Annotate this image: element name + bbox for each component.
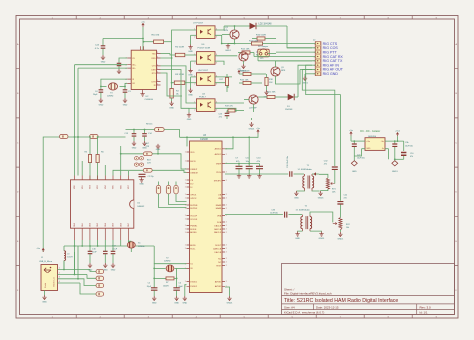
svg-text:2: 2 — [226, 281, 227, 283]
wire U5 output right — [215, 76, 232, 78]
svg-text:22R: 22R — [147, 163, 151, 165]
ferrite bead L1 — [60, 134, 69, 138]
U1 bottom pin wires — [74, 233, 76, 241]
svg-text:1: 1 — [185, 232, 186, 234]
wire +5V rail to C24 — [103, 38, 143, 40]
wire +5V to U2 — [142, 27, 144, 50]
ground under U6 input — [191, 60, 197, 62]
svg-text:GND: GND — [294, 197, 299, 199]
J1 D+ wire — [58, 278, 79, 280]
svg-text:2: 2 — [226, 252, 227, 254]
wire 5v digital rail — [126, 129, 155, 131]
ground under C14 — [142, 141, 146, 146]
svg-text:12MHz: 12MHz — [107, 95, 113, 97]
svg-text:MICN: MICN — [190, 161, 196, 163]
svg-text:ROLL: ROLL — [190, 248, 196, 250]
wire AVDD hook — [225, 137, 233, 149]
svg-text:AVSS2: AVSS2 — [215, 285, 222, 288]
svg-text:GND: GND — [352, 171, 357, 173]
svg-text:VRA: VRA — [217, 214, 222, 217]
svg-text:1: 1 — [185, 208, 186, 210]
svg-text:AVDD2: AVDD2 — [215, 153, 222, 156]
trimmer RV1 10K wire — [312, 173, 319, 175]
svg-text:Id: 1/1: Id: 1/1 — [420, 311, 428, 315]
ferrite bead L2 — [77, 136, 79, 138]
svg-text:GND: GND — [123, 104, 128, 106]
svg-text:DACLB: DACLB — [215, 251, 222, 254]
ground GND1 above U3 — [249, 122, 253, 127]
ground PS1 in — [362, 148, 366, 150]
crystal Y3 12MHz — [101, 85, 107, 87]
transistor Q4 PNP — [249, 95, 258, 104]
svg-text:GND1: GND1 — [227, 302, 234, 304]
svg-text:DSR: DSR — [151, 69, 156, 71]
wire under U1 junctions — [64, 245, 154, 247]
svg-text:GND: GND — [139, 183, 144, 185]
svg-text:2: 2 — [226, 225, 227, 227]
wire J2 pin7 long riser — [290, 70, 300, 84]
svg-text:GND: GND — [188, 75, 193, 77]
svg-text:SI8642: SI8642 — [137, 206, 145, 208]
trimmer RV2 10k — [339, 218, 342, 231]
J2 feed wires — [276, 43, 316, 45]
ferrite bead FB1 vertical — [158, 182, 160, 186]
ground PS1 out — [385, 148, 389, 150]
svg-text:1:1 600R Audio: 1:1 600R Audio — [298, 168, 313, 171]
svg-text:1: 1 — [185, 180, 186, 182]
svg-text:2: 2 — [226, 194, 227, 196]
resistor R18 13K vertical — [265, 78, 268, 86]
wire +5v to PS1 — [350, 136, 352, 142]
svg-text:GND1: GND1 — [249, 128, 256, 130]
wire U2 UD+ down — [75, 64, 128, 66]
svg-text:2: 2 — [226, 208, 227, 210]
wire Q3 emitter down — [276, 76, 291, 84]
wire U6 output right — [215, 55, 237, 57]
resistor R17 vertical — [225, 78, 228, 86]
wire U2 TXD to R2 — [161, 53, 171, 55]
svg-text:2: 2 — [157, 52, 158, 54]
ground GND1 under Q2 — [243, 61, 245, 64]
U2 pins right — [157, 54, 161, 86]
svg-text:+5v1: +5v1 — [395, 131, 401, 133]
svg-text:10k: 10k — [346, 227, 349, 229]
transistor Q1 NPN — [230, 30, 239, 39]
svg-text:1: 1 — [185, 281, 186, 283]
svg-text:VBUS D+ D-: VBUS D+ D- — [54, 276, 56, 287]
svg-text:2: 2 — [194, 83, 195, 85]
svg-text:ISOUT: ISOUT — [215, 245, 222, 247]
svg-text:DVDD2: DVDD2 — [190, 286, 198, 288]
title block outline — [282, 264, 455, 315]
svg-text:R7: R7 — [166, 282, 168, 284]
svg-text:2: 2 — [226, 205, 227, 207]
svg-text:10uF/16v: 10uF/16v — [357, 157, 365, 159]
transistor Q2 NPN — [239, 52, 248, 61]
svg-text:AVDD: AVDD — [190, 244, 196, 247]
svg-text:DARCLB: DARCLB — [213, 247, 222, 250]
svg-text:12MHz: 12MHz — [138, 246, 145, 248]
svg-text:2: 2 — [226, 232, 227, 234]
svg-text:SPDIFO: SPDIFO — [214, 180, 222, 182]
svg-text:3: 3 — [216, 62, 217, 64]
wire into U7 pin1 — [172, 30, 197, 42]
svg-text:GND: GND — [182, 302, 187, 304]
D- vertical continue — [74, 252, 76, 275]
svg-text:3: 3 — [216, 37, 217, 39]
wire Q3 collector to J2 — [276, 61, 313, 67]
svg-text:1: 1 — [194, 101, 195, 103]
svg-text:Date: 2023-12-15: Date: 2023-12-15 — [316, 305, 339, 309]
svg-text:C6: C6 — [179, 283, 181, 285]
svg-text:10uF/16v: 10uF/16v — [405, 145, 413, 147]
ground GND1 at J2 — [304, 74, 306, 76]
wire D1 to J2 riser — [298, 65, 312, 97]
svg-text:DC - DC - Isolator: DC - DC - Isolator — [360, 130, 380, 133]
trimmer RV1 10K — [326, 178, 329, 189]
svg-text:3: 3 — [216, 83, 217, 85]
svg-text:GND: GND — [111, 269, 116, 271]
diode LD2 1N4148 — [240, 25, 250, 27]
svg-text:USBDP: USBDP — [190, 169, 198, 171]
wire U3 AVSS down — [225, 287, 230, 296]
svg-text:2: 2 — [226, 245, 227, 247]
svg-text:SAICLR: SAICLR — [214, 231, 222, 234]
svg-text:2: 2 — [226, 265, 227, 267]
svg-text:10mH: 10mH — [67, 257, 73, 259]
svg-text:Title: S21RC Isolated HAM Radi: Title: S21RC Isolated HAM Radio Digital … — [284, 298, 398, 304]
svg-text:LD2 1N4148: LD2 1N4148 — [259, 24, 273, 26]
svg-text:D2 Jumper: D2 Jumper — [258, 45, 268, 48]
svg-text:USBDM: USBDM — [190, 172, 198, 174]
svg-text:R12 13K: R12 13K — [241, 49, 250, 51]
capacitor C20 in — [353, 141, 355, 143]
svg-text:VREF: VREF — [216, 163, 222, 165]
svg-text:2: 2 — [157, 71, 158, 73]
ground under C16 — [88, 263, 92, 268]
svg-text:ADSEL: ADSEL — [190, 231, 197, 234]
svg-text:2: 2 — [226, 180, 227, 182]
ground GND1 mid — [264, 90, 268, 95]
svg-text:HBAS: HBAS — [216, 207, 222, 210]
svg-text:PWSEL: PWSEL — [190, 225, 198, 227]
T2 right coil top lead — [310, 212, 333, 222]
resistor R4 1K vertical — [171, 83, 173, 89]
svg-text:MUTEF: MUTEF — [190, 208, 198, 210]
svg-text:2: 2 — [226, 198, 227, 200]
resonator Y1 12MHz — [127, 242, 135, 248]
svg-text:NBAS: NBAS — [216, 204, 222, 207]
svg-text:GND: GND — [174, 302, 179, 304]
svg-text:1: 1 — [185, 152, 186, 154]
svg-text:NPN: NPN — [224, 30, 229, 32]
svg-text:RTS: RTS — [152, 73, 157, 75]
svg-text:+Vin: +Vin — [366, 141, 370, 143]
svg-text:2: 2 — [194, 110, 195, 112]
svg-text:SAICLB: SAICLB — [214, 228, 222, 231]
svg-text:1: 1 — [185, 183, 186, 185]
svg-text:47n: 47n — [324, 164, 327, 166]
svg-text:1000R: 1000R — [163, 285, 169, 287]
wire U2 V3 stub — [119, 58, 127, 63]
IC U2 CH340G body — [131, 50, 156, 89]
svg-text:GND: GND — [152, 302, 157, 304]
J1 ID wire — [58, 282, 81, 284]
svg-text:USB_B_Micro: USB_B_Micro — [39, 260, 53, 263]
svg-text:R3 510R: R3 510R — [175, 74, 184, 76]
svg-text:GND: GND — [99, 104, 104, 106]
svg-text:1: 1 — [185, 225, 186, 227]
capacitor C19 out2 — [403, 141, 405, 151]
svg-text:U5 PC817: U5 PC817 — [198, 70, 209, 72]
ferrite bead FB2 vertical — [168, 182, 170, 186]
ground drop mid — [157, 149, 159, 154]
svg-text:TEST: TEST — [216, 265, 222, 267]
svg-text:LIM: LIM — [218, 198, 222, 200]
svg-text:1: 1 — [194, 54, 195, 56]
svg-text:Size: A4: Size: A4 — [284, 305, 295, 309]
svg-text:47k: 47k — [410, 156, 413, 158]
wire Q4 base — [244, 99, 249, 101]
wire U2 XI to crystal — [101, 79, 127, 86]
RV1 bottom to ground — [321, 189, 328, 191]
power +5v1 out — [396, 133, 398, 137]
svg-text:2: 2 — [157, 56, 158, 58]
transformer T2 600R audio — [301, 217, 303, 229]
wire +5v rail U3 — [180, 134, 259, 138]
wire U4 output right — [215, 102, 244, 104]
title block row lines — [282, 296, 455, 315]
wire U3 DVSS down — [185, 285, 187, 296]
capacitor C2 22p — [139, 174, 146, 176]
svg-text:2: 2 — [157, 83, 158, 85]
ground under C17 C20 — [103, 263, 107, 268]
svg-text:NPN: NPN — [281, 70, 286, 72]
svg-text:GND: GND — [156, 149, 161, 151]
ESD protector DZ3 — [96, 283, 104, 287]
wire U2 UD- down — [78, 67, 127, 69]
svg-text:1N4148: 1N4148 — [285, 109, 293, 111]
svg-text:10uF: 10uF — [92, 252, 97, 254]
svg-text:10uF/16v: 10uF/16v — [270, 213, 278, 215]
svg-text:U7 PC817: U7 PC817 — [193, 22, 204, 24]
sheet border frame inner — [20, 19, 455, 315]
ground GND1 at Q1 — [228, 43, 235, 45]
svg-text:2: 2 — [226, 262, 227, 264]
svg-text:1: 1 — [185, 215, 186, 217]
power +5v at R13 — [238, 70, 240, 74]
capacitor C3 20pF — [124, 86, 126, 89]
capacitor C21 out — [394, 141, 396, 143]
svg-text:GND: GND — [42, 301, 47, 303]
svg-text:0v: 0v — [382, 148, 384, 150]
svg-text:2: 2 — [226, 172, 227, 174]
svg-text:PC817: PC817 — [199, 97, 206, 99]
svg-text:RIG GND: RIG GND — [323, 72, 339, 76]
svg-text:20pF: 20pF — [93, 94, 98, 96]
ground at U1 right — [139, 178, 143, 183]
transformer T1 600R audio — [303, 176, 305, 188]
wire Q4 collector down — [253, 104, 255, 112]
svg-text:C3b: C3b — [405, 142, 408, 144]
capacitor C4 20pF — [100, 86, 102, 89]
J1 VBUS wire — [58, 269, 91, 271]
svg-text:R19 47k: R19 47k — [225, 106, 234, 108]
wire J2 pin4 riser — [253, 53, 255, 57]
U1 pins bottom — [75, 228, 129, 232]
wire U2 CTS net — [161, 66, 197, 103]
svg-text:GND1: GND1 — [318, 197, 325, 199]
power +5V top — [142, 23, 144, 27]
svg-text:RXD: RXD — [151, 58, 156, 60]
svg-text:VOLDN: VOLDN — [190, 219, 197, 221]
svg-text:UD-: UD- — [132, 68, 136, 70]
svg-text:2: 2 — [157, 68, 158, 70]
wire RIG AF OUT bus — [302, 70, 335, 166]
svg-text:TXD: TXD — [152, 53, 157, 55]
svg-text:DOA: DOA — [217, 221, 222, 224]
svg-text:2: 2 — [194, 62, 195, 64]
ground at U5 input — [191, 76, 197, 78]
svg-text:1: 1 — [185, 161, 186, 163]
svg-text:GND: GND — [132, 147, 137, 149]
svg-text:CTS: CTS — [152, 66, 157, 68]
svg-text:2: 2 — [226, 222, 227, 224]
svg-text:GND1: GND1 — [319, 238, 326, 240]
svg-text:AVSS1: AVSS1 — [215, 280, 222, 283]
J1 shield to ground — [44, 291, 46, 296]
ESD protector DZ1 — [96, 269, 104, 273]
svg-text:C2 22p: C2 22p — [148, 176, 154, 178]
test point ovals — [134, 157, 138, 160]
svg-text:DO: DO — [190, 183, 193, 185]
U1 pins top — [75, 176, 129, 180]
svg-text:2: 2 — [157, 64, 158, 66]
svg-text:R21 33K: R21 33K — [267, 92, 276, 94]
wire RIG AF IN bus — [306, 65, 341, 201]
svg-text:2: 2 — [226, 258, 227, 260]
svg-text:VDD: VDD — [190, 152, 195, 154]
svg-text:47n: 47n — [219, 117, 222, 119]
wire Q1 emitter — [234, 39, 236, 43]
svg-text:1: 1 — [185, 194, 186, 196]
svg-text:PC817 510R: PC817 510R — [198, 47, 211, 49]
capacitor C24 — [102, 39, 104, 46]
svg-text:1:1 600R Audio: 1:1 600R Audio — [296, 209, 311, 212]
wire U3 X0 net — [177, 267, 187, 269]
RV2 bottom ground — [339, 230, 341, 232]
svg-text:GND: GND — [188, 94, 193, 96]
svg-text:GND1: GND1 — [392, 171, 399, 173]
svg-text:1: 1 — [185, 187, 186, 189]
svg-text:2: 2 — [226, 248, 227, 250]
ground below C24 — [101, 55, 105, 60]
U2 pins left — [127, 58, 131, 83]
svg-text:1: 1 — [185, 248, 186, 250]
svg-text:GND: GND — [169, 107, 174, 109]
U3 pins right — [222, 149, 225, 286]
wire R10 to RXD net — [161, 42, 172, 58]
svg-text:GND: GND — [366, 148, 371, 150]
svg-text:GND1: GND1 — [225, 50, 232, 52]
svg-text:2: 2 — [194, 37, 195, 39]
T2 grounds — [298, 230, 303, 232]
svg-text:R10 1M: R10 1M — [152, 34, 160, 36]
J1 D- wire — [58, 274, 75, 276]
wire LD2 to J2 riser — [287, 26, 312, 48]
svg-text:DVDD1: DVDD1 — [190, 281, 198, 283]
svg-text:KiCad E.D.A. eeschema (6.0.7): KiCad E.D.A. eeschema (6.0.7) — [284, 311, 324, 315]
svg-text:R8 1k5: R8 1k5 — [146, 124, 153, 126]
svg-text:C5: C5 — [148, 283, 150, 285]
ground under U4 input — [189, 107, 197, 109]
U2 pins top — [140, 46, 143, 50]
transistor Q3 NPN — [271, 67, 280, 76]
ESD protector DZ2 — [96, 276, 104, 280]
svg-text:22R: 22R — [146, 146, 150, 148]
T1 left bottom ground — [296, 190, 304, 193]
svg-text:1: 1 — [185, 198, 186, 200]
T2 input wire from U3 — [225, 214, 283, 216]
svg-text:GND1: GND1 — [338, 238, 345, 240]
svg-text:GPIO2: GPIO2 — [190, 198, 197, 200]
power +5v U3 — [257, 130, 259, 134]
svg-text:2: 2 — [226, 229, 227, 231]
power +5v USB — [42, 248, 44, 252]
svg-text:1: 1 — [185, 205, 186, 207]
wire J2 pin5 riser — [257, 54, 259, 61]
svg-text:XO: XO — [132, 83, 135, 85]
svg-text:1: 1 — [185, 229, 186, 231]
svg-text:VOLUP: VOLUP — [190, 215, 197, 217]
svg-text:DACLR: DACLR — [214, 224, 221, 227]
svg-text:AVDD1: AVDD1 — [215, 148, 222, 151]
svg-text:3: 3 — [216, 110, 217, 112]
svg-text:C30 10uF/16v: C30 10uF/16v — [287, 156, 289, 168]
svg-text:File: Digital-interfaceREV3.ki: File: Digital-interfaceREV3.kicad_sch — [284, 292, 332, 296]
U3 pins left — [187, 152, 190, 286]
svg-text:MODE: MODE — [190, 229, 197, 231]
U2 bottom pin to ground — [142, 90, 144, 92]
ground under crystal caps — [152, 296, 156, 301]
wire U7 output right — [215, 26, 224, 30]
ground below C3 — [123, 98, 127, 103]
wire Q1 collector up — [234, 26, 236, 30]
IC U1 body — [71, 180, 134, 228]
svg-text:2: 2 — [226, 154, 227, 156]
T1 input wire from U3 — [225, 173, 288, 175]
wire VREF caps rail — [225, 163, 260, 165]
wire U2 XO to crystal — [125, 83, 127, 86]
svg-text:R2 510R: R2 510R — [175, 47, 184, 49]
svg-text:Rev: 3.0: Rev: 3.0 — [420, 305, 432, 309]
svg-text:1: 1 — [185, 219, 186, 221]
svg-text:GND: GND — [101, 61, 106, 63]
U1 top pin wires — [74, 65, 76, 176]
svg-text:1: 1 — [185, 245, 186, 247]
svg-text:2: 2 — [157, 80, 158, 82]
svg-text:GND: GND — [187, 119, 192, 121]
wire PS1 out — [385, 140, 404, 142]
svg-text:R16 510R: R16 510R — [256, 34, 266, 36]
svg-text:C10: C10 — [410, 153, 413, 155]
capacitor C20 100n — [112, 246, 114, 251]
svg-text:MUTEB: MUTEB — [190, 205, 198, 207]
ground below C4 — [99, 98, 103, 103]
wire U2 RTS down — [161, 73, 183, 96]
power +5v dcdc — [350, 132, 352, 136]
T1 right bottom ground — [312, 190, 320, 193]
